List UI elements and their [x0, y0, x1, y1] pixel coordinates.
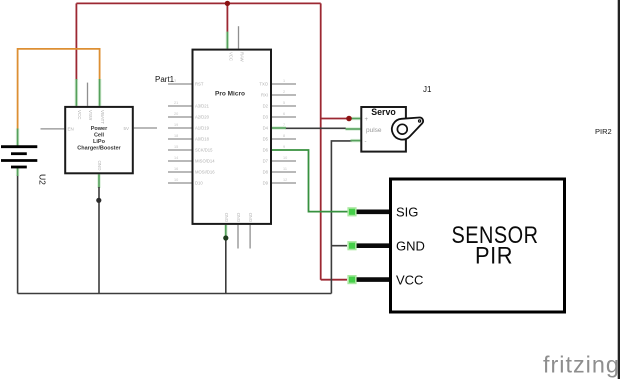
label U2 [38, 174, 48, 185]
svg-text:D6: D6 [263, 148, 269, 153]
pin VCC PIR (thick stub) [352, 277, 389, 282]
wire red right vertical down [320, 3, 322, 279]
label Pro Micro right pin names [259, 82, 268, 186]
node junction at servo + pin [346, 116, 352, 122]
battery U2 [1, 147, 37, 167]
pin VSW power cell (gray) [87, 83, 89, 106]
svg-text:19: 19 [174, 123, 178, 127]
svg-text:SCK/D15: SCK/D15 [195, 148, 213, 153]
pin GND power cell (connected, green) [97, 174, 100, 188]
svg-text:D9: D9 [263, 181, 269, 186]
IC PIR2 sensor box [391, 179, 565, 312]
label SENSOR PIR [452, 222, 539, 270]
svg-text:21: 21 [174, 101, 178, 105]
label VCC [396, 272, 423, 287]
pin VCC power cell (connected, green) [75, 79, 78, 106]
svg-text:3: 3 [174, 79, 176, 83]
svg-text:RST: RST [195, 82, 204, 87]
svg-text:LiPo: LiPo [93, 139, 106, 145]
svg-text:PIR2: PIR2 [595, 127, 612, 136]
svg-text:GND: GND [224, 213, 229, 222]
svg-text:15: 15 [174, 145, 178, 149]
border right edge [618, 0, 620, 379]
pin RAW Pro Micro (gray) [238, 26, 240, 48]
pin GND PIR (thick stub) [352, 243, 389, 248]
wire red to PIR VCC [321, 279, 347, 281]
svg-text:-: - [365, 139, 367, 145]
svg-text:SIG: SIG [396, 205, 418, 220]
pin + battery (connected, green) [16, 129, 19, 146]
node junction on top rail [225, 1, 230, 6]
svg-text:VCC: VCC [228, 52, 233, 61]
svg-text:9: 9 [283, 145, 285, 149]
svg-text:J1: J1 [423, 85, 432, 94]
svg-text:18: 18 [174, 134, 178, 138]
label power cell title [77, 126, 121, 152]
svg-text:RXI: RXI [261, 93, 268, 98]
svg-text:GND: GND [396, 238, 425, 253]
icon servo horn [392, 118, 423, 140]
svg-text:D3: D3 [263, 115, 269, 120]
label Pro Micro left pin names [195, 82, 215, 186]
label Pro Micro [215, 91, 245, 98]
svg-text:5: 5 [283, 101, 285, 105]
wire servo - to PIR GND and rail (dark) [331, 141, 352, 294]
svg-text:+: + [365, 117, 369, 123]
svg-text:MOSI/D16: MOSI/D16 [195, 170, 215, 175]
svg-text:fritzing: fritzing [543, 351, 620, 377]
label GND [396, 238, 425, 253]
pin - servo (connected, green) [351, 139, 361, 142]
label pulse and polarity [365, 117, 382, 145]
svg-text:GND: GND [236, 213, 241, 222]
svg-text:5V: 5V [124, 126, 130, 131]
wire D4 to servo pulse (dark with green pin ends) [285, 127, 346, 129]
pin SIG PIR (thick stub) [352, 210, 389, 215]
IC U? power cell box [65, 107, 133, 173]
wire GND bottom rail [18, 293, 332, 295]
IC Part1 Pro Micro box [193, 50, 272, 224]
svg-text:D2: D2 [263, 104, 269, 109]
resistorless pin stubs: Pro Micro left pins (gray) [168, 79, 193, 183]
wire red left vertical to power cell VCC [75, 3, 77, 80]
svg-text:D10: D10 [195, 181, 203, 186]
pin VCC Pro Micro (connected, green) [226, 32, 229, 49]
svg-text:1: 1 [283, 79, 285, 83]
svg-text:EN: EN [68, 127, 74, 132]
svg-text:16: 16 [174, 167, 178, 171]
svg-text:Part1: Part1 [155, 75, 175, 84]
pin VBATT power cell (connected, green) [98, 79, 101, 106]
svg-text:GND: GND [248, 213, 253, 222]
IC J1 servo box [361, 107, 406, 152]
svg-text:pulse: pulse [366, 127, 382, 134]
svg-text:20: 20 [174, 112, 178, 116]
svg-text:Servo: Servo [371, 107, 396, 117]
svg-text:U2: U2 [38, 174, 48, 185]
pin GND3 Pro Micro (gray) [249, 225, 251, 249]
svg-text:D4: D4 [263, 126, 269, 131]
svg-text:GND: GND [97, 160, 102, 171]
pin EN power cell (gray) [41, 128, 65, 130]
svg-text:RAW: RAW [240, 52, 245, 62]
svg-text:Charger/Booster: Charger/Booster [77, 146, 121, 152]
node junction below Pro Micro GND [223, 235, 228, 240]
node SIG pad (green) [348, 208, 356, 216]
svg-text:D7: D7 [263, 159, 269, 164]
label Servo [371, 107, 396, 117]
svg-text:VBATT: VBATT [100, 110, 105, 124]
svg-text:PIR: PIR [475, 243, 513, 270]
svg-text:2: 2 [283, 90, 285, 94]
label power cell pin names [68, 110, 130, 171]
pin - battery (connected, green) [16, 168, 19, 177]
svg-text:Power: Power [91, 126, 108, 132]
pin + servo (connected, green) [350, 117, 360, 120]
wire orange from battery + to power cell VBATT [18, 49, 100, 130]
pin GND2 Pro Micro (gray) [237, 225, 239, 249]
pin stubs: Pro Micro right pins (gray) [271, 79, 296, 183]
pin pulse servo (connected, green) [346, 127, 361, 130]
wire GND net: battery - down to bottom rail [17, 175, 19, 294]
svg-text:MISO/D14: MISO/D14 [195, 159, 215, 164]
svg-text:A2/D20: A2/D20 [195, 115, 210, 120]
label Pro Micro top/bottom pin names [224, 52, 253, 222]
svg-text:A1/D19: A1/D19 [195, 126, 210, 131]
pin 5V power cell (gray) [134, 127, 157, 129]
svg-text:A0/D18: A0/D18 [195, 137, 210, 142]
svg-text:VCC: VCC [396, 272, 423, 287]
wire red tap down to Pro Micro VCC [226, 3, 228, 32]
svg-text:A3/D21: A3/D21 [195, 104, 210, 109]
svg-text:D5: D5 [263, 137, 269, 142]
svg-text:14: 14 [174, 156, 178, 160]
svg-text:10: 10 [283, 156, 287, 160]
label Part1 [155, 75, 175, 84]
wire power cell GND to rail [98, 187, 100, 294]
svg-text:VSW: VSW [88, 110, 93, 121]
label fritzing watermark [543, 351, 620, 377]
node VCC pad (green) [348, 276, 356, 284]
node junction below power cell GND [96, 198, 101, 203]
svg-text:Pro Micro: Pro Micro [215, 91, 245, 98]
label PIR2 [595, 127, 612, 136]
svg-text:VCC: VCC [77, 110, 82, 120]
svg-text:10: 10 [174, 178, 178, 182]
svg-text:Cell: Cell [94, 133, 105, 139]
svg-text:8: 8 [283, 134, 285, 138]
wire red branch to servo + [321, 118, 350, 120]
svg-text:11: 11 [283, 167, 287, 171]
svg-text:7: 7 [283, 123, 285, 127]
label J1 [423, 85, 432, 94]
label SIG [396, 205, 418, 220]
svg-text:6: 6 [283, 112, 285, 116]
svg-text:12: 12 [283, 178, 287, 182]
wire Pro Micro GND to rail [225, 236, 227, 294]
wire D6 to PIR SIG (green) [271, 150, 348, 212]
pin GND1 Pro Micro (connected, green) [224, 225, 227, 237]
node GND pad (green) [348, 242, 356, 250]
pin D4 Pro Micro (connected, green) [271, 126, 286, 129]
svg-text:TXO: TXO [259, 82, 268, 87]
wire VCC net: top rail from power cell VCC to right drop [76, 2, 320, 4]
svg-text:D8: D8 [263, 170, 269, 175]
